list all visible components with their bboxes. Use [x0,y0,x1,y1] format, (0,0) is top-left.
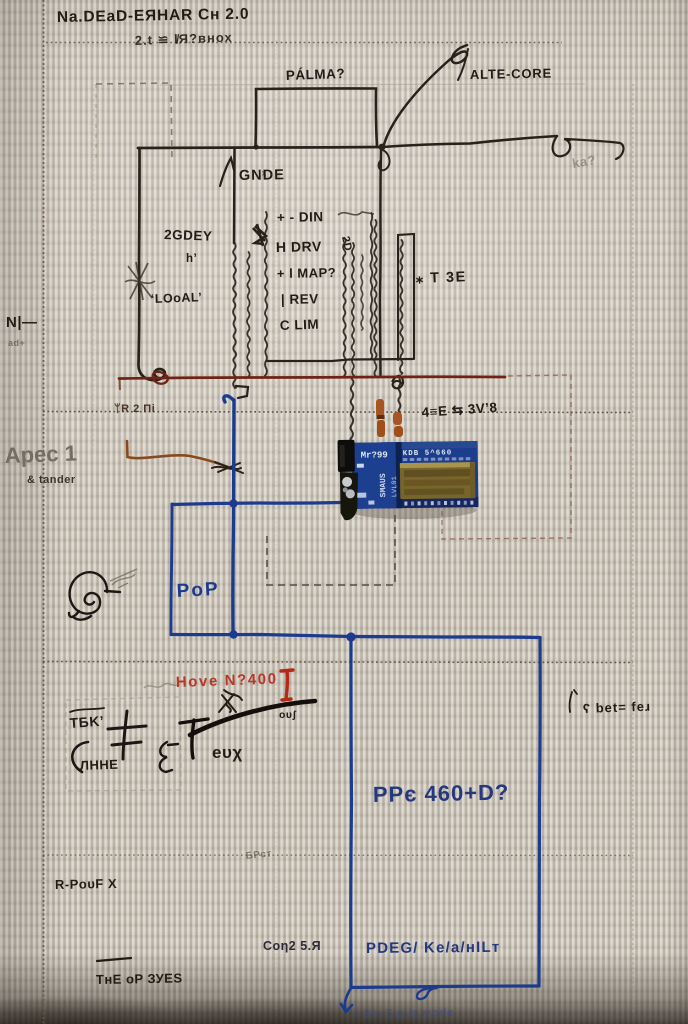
svg-text:N|—: N|— [6,314,38,331]
box E: narrow box x=398..414 [398,234,414,360]
blue big box: right edge x=540 [539,638,540,987]
F/double-cross symbol [108,711,146,759]
resistor body R-left [376,399,384,417]
spiral doodle [69,572,120,620]
resistor body R-right [393,412,402,425]
grid: faint vertical rule x=276 [275,40,277,1010]
blue box PoP: left edge + bottom [171,504,172,634]
box D: label box, squiggly left edge x=266 [265,212,268,377]
svg-text:PΡє 460+D?: PΡє 460+D? [373,780,510,807]
svg-text:= 2οι 5 μ iτ мοdе: = 2οι 5 μ iτ мοdе [352,1005,455,1021]
module U1: photo of blue PCB [338,438,479,520]
wire: loop on top horizontal [553,136,570,156]
svg-text:& tander: & tander [27,474,76,486]
brown dashed box right of module [442,375,571,539]
wire: jog from squiggle into blue wire [236,386,248,398]
blue arrow bottom-left of big box [341,988,352,1012]
maroon vertical stub x=120 [119,378,122,390]
svg-text:Hove N?400: Hove N?400 [176,670,278,691]
svg-text:ka?: ka? [571,152,597,171]
svg-text:PÁLMA?: PÁLMA? [286,66,346,83]
svg-text:R-PουF Χ: R-PουF Χ [55,876,117,892]
pencil squiggle left of red note [144,684,177,688]
box D: right edge x=372 [370,213,372,358]
grid: horizontal dotted rule y=662 [43,662,633,663]
svg-text:LVL01: LVL01 [391,476,399,497]
grid: vertical dotted rule x=43 [43,0,45,1024]
wire squiggle to module pin x=399 [398,379,400,412]
blue curl on bottom edge [417,988,437,999]
box: PALMA box B [256,88,378,147]
box: outer box A left edge with bottom hook [139,148,165,380]
scribble arrow at box D top-left [253,224,266,246]
svg-text:Apec 1: Apec 1 [4,440,77,468]
svg-text:PDEG/ Kе/а/нILт: PDEG/ Kе/а/нILт [366,939,501,957]
svg-text:KDB 5^660: KDB 5^660 [403,448,453,458]
svg-text:ᛘR 2 Πi: ᛘR 2 Πi [114,402,155,415]
resistor squiggle x=362 (short) [361,255,363,330]
resistor squiggle x=353 [352,243,355,377]
wire: right vertical x=380 from top line down [380,149,381,375]
grid: vertical dotted rule x=633 [632,84,634,1012]
grid: horizontal dotted rule y=855 [43,854,633,857]
grid: horizontal dotted rule y=411 [43,412,633,413]
node: blue junction (233,634) [229,630,237,638]
grid: horizontal dotted rule y=42 [46,42,562,44]
xi-3 squiggle [160,742,178,772]
svg-text:ˣ: ˣ [261,169,267,181]
resistor squiggle x=344 [343,238,346,376]
svg-text:+ - DIN: + - DIN [277,209,324,225]
svg-text:TБK’: TБK’ [69,713,105,731]
svg-text:еυχ: еυχ [212,743,243,762]
svg-text:4≡E ⇆ 3V’8: 4≡E ⇆ 3V’8 [421,400,498,420]
brown jumper wire to blue net [127,441,228,467]
NH with brace [72,742,88,772]
svg-text:+ l MAP?: + l MAP? [277,265,337,281]
resistor squiggle x=375 [374,220,377,377]
blue wire: horizontal y=503 [172,503,342,505]
svg-text:TнЕ оP ЗУES: TнЕ оP ЗУES [96,970,183,987]
svg-text:‘LOoAL’: ‘LOoAL’ [151,290,203,306]
thick black curve (our) [190,701,315,735]
svg-text:2.t ≌ l̸Я?внох: 2.t ≌ l̸Я?внох [135,30,233,48]
grid: faint vertical rule x=94 [93,84,95,450]
box D/E: bottom edge [267,359,413,361]
pencil dashed box bottom-left [66,697,181,791]
blue big box: bottom edge [351,986,539,988]
label TNE OP ZUES with overbar [97,958,131,961]
svg-text:Mr?99: Mr?99 [361,450,388,460]
node: blue junction (233,503) [229,499,237,507]
svg-text:H DRV: H DRV [276,238,322,255]
pencil dashed box top-left [96,83,172,162]
svg-text:ad+: ad+ [8,338,25,348]
svg-text:ουʃ: ουʃ [279,709,297,721]
node: blue junction (351,637) [346,632,355,641]
wire: curl right of junction [379,150,390,170]
svg-text:ЛННΕ: ЛННΕ [80,757,119,773]
grid: faint horizontal rule y=85 [160,84,585,85]
wire squiggle to module pin x=352 [351,379,354,441]
resistor squiggle inside box E x=401 [400,240,403,374]
wire: main top horizontal [138,147,382,148]
wire: curve up to ALTE-CORE with arrow loop [383,45,467,148]
wire: inner vertical x=234 (straight then resistor squiggle) [233,149,236,243]
node: junction dot at top line x=256 [253,144,258,149]
svg-text:| REV: | REV [281,291,319,307]
svg-text:БPст: БPст [245,848,272,862]
blue big box: left edge x=351 [349,637,353,987]
svg-text:Nа.DEаD-ЕЯНАR Сн 2.0: Nа.DEаD-ЕЯНАR Сн 2.0 [57,6,250,26]
svg-text:C LIM: C LIM [280,317,320,333]
T eux [180,719,208,758]
resistor squiggle x=248 [247,252,250,377]
svg-text:PοP: PοP [176,579,220,602]
svg-text:ALTE-CORE: ALTE-CORE [470,66,552,82]
svg-text:ʕ bet= feɹ: ʕ bet= feɹ [583,699,652,716]
GND caret [220,158,234,186]
svg-text:SMAUS: SMAUS [379,473,388,497]
maroon hook left end [153,372,168,384]
pencil scribble X on box A left edge [125,262,155,300]
svg-text:Cοη2 5.Я: Cοη2 5.Я [263,939,321,953]
pencil scribble above spiral [110,569,137,588]
red I mark [281,670,293,700]
scribble on curve [219,690,242,712]
svg-text:h’: h’ [186,253,197,265]
svg-text:2D: 2D [339,235,354,252]
blue wire: horizontal y=637 to big box [351,637,540,638]
pencil dashed box under module [267,513,395,585]
maroon bus wire [119,377,505,379]
node: junction dot at top line x=382 [379,144,386,151]
scribble blob on maroon line x=397 [392,376,403,388]
svg-text:⁎ T 3E: ⁎ T 3E [416,269,467,287]
blue wire: vertical x=234 [224,396,234,633]
svg-text:2GDEY: 2GDEY [164,227,213,244]
